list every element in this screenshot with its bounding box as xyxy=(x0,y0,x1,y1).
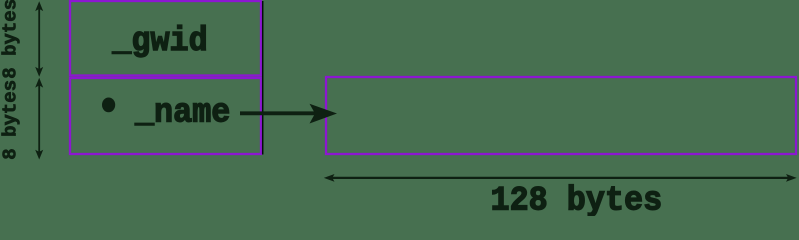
svg-text:8 bytes: 8 bytes xyxy=(0,80,22,160)
svg-text:_name: _name xyxy=(134,93,230,131)
svg-text:_gwid: _gwid xyxy=(111,22,207,60)
svg-text:8 bytes: 8 bytes xyxy=(0,0,22,79)
svg-text:128 bytes: 128 bytes xyxy=(491,182,663,216)
